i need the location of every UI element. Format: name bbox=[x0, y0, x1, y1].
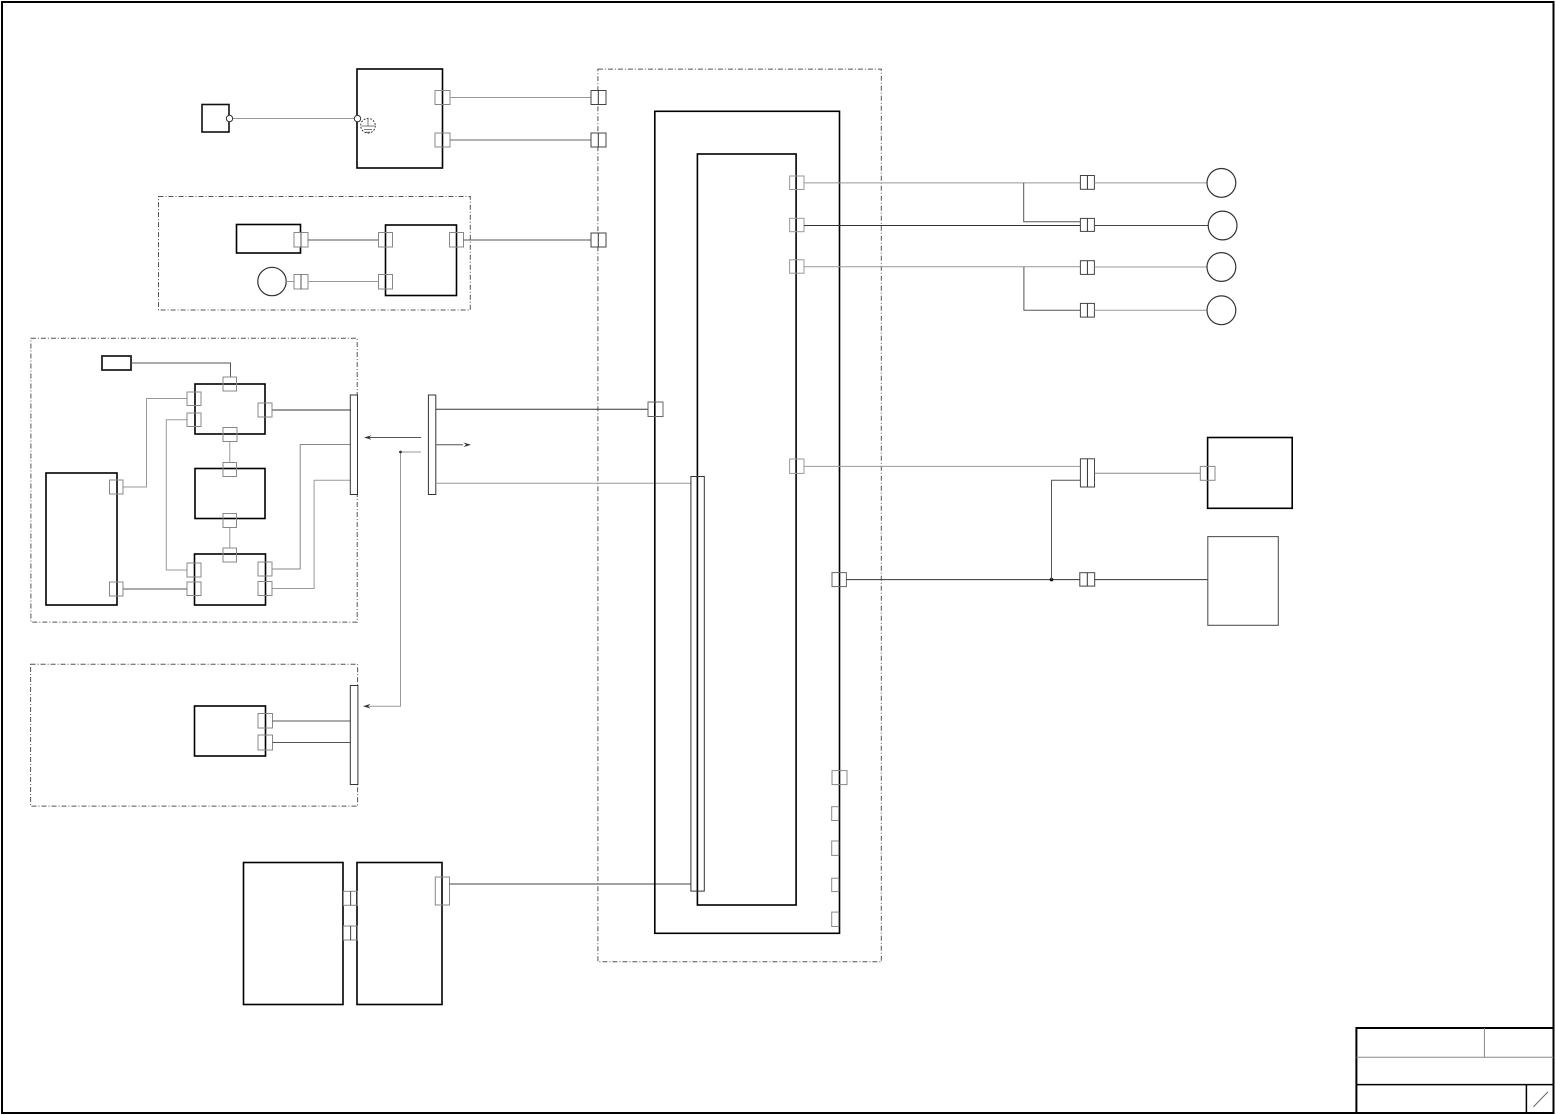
label plate bbox=[102, 356, 131, 370]
wire C right lower to bus bar 1 bbox=[272, 480, 350, 588]
wire RA to RB bbox=[308, 239, 379, 241]
socket circle at J1 bbox=[226, 115, 232, 121]
wire label to module A bbox=[131, 363, 231, 377]
bottom box G bbox=[357, 863, 442, 1005]
signal arrow right bbox=[436, 443, 471, 448]
frame right connector (output) bbox=[832, 573, 846, 587]
junction dot on output wire bbox=[1050, 578, 1054, 582]
lamp 4 bbox=[1207, 296, 1236, 325]
wire sensor to pair bbox=[286, 281, 294, 283]
wire inner panel to tall connector bbox=[804, 465, 1080, 467]
connector RB right bbox=[450, 233, 464, 248]
connector PSU output 1 bbox=[435, 91, 450, 105]
wire J1 to PSU bbox=[230, 118, 355, 120]
lamp 2 bbox=[1208, 211, 1237, 240]
enclosure (control cabinet, dash-dot) bbox=[31, 338, 357, 622]
frame right pin 1 bbox=[832, 807, 839, 821]
wire branch line1 to lamp connector 2 bbox=[1024, 183, 1081, 222]
frame right pin 4 bbox=[832, 912, 839, 926]
module E bbox=[195, 706, 266, 756]
protective earth symbol bbox=[361, 118, 376, 133]
connector RB left upper bbox=[379, 233, 393, 248]
connector A bottom bbox=[223, 428, 237, 442]
box 2 bbox=[1208, 537, 1279, 626]
connector E right lower bbox=[258, 735, 273, 750]
battery box D bbox=[46, 473, 117, 605]
frame right connector (spare pair) bbox=[832, 771, 847, 785]
connector RB left lower bbox=[379, 275, 393, 290]
connector PSU output 2 bbox=[435, 133, 450, 147]
wire PSU out2 bbox=[450, 139, 591, 141]
wire A right to bus bar 1 bbox=[272, 409, 350, 411]
connector E right upper bbox=[258, 714, 273, 729]
lamp connector 4 bbox=[1080, 303, 1094, 317]
wire junction up to tall connector bbox=[1052, 480, 1081, 579]
lamp 3 bbox=[1207, 253, 1236, 282]
wire A bottom to B top bbox=[229, 442, 231, 463]
wire to lamp 2 bbox=[1094, 225, 1208, 227]
tall connector on G right bbox=[435, 877, 449, 905]
connector D right upper bbox=[110, 480, 124, 494]
module RA bbox=[237, 225, 301, 254]
inner panel connector 2 bbox=[790, 218, 804, 231]
display strip bbox=[691, 477, 704, 892]
wire frame output to lower connector bbox=[846, 579, 1079, 581]
connector on frame left bbox=[648, 402, 663, 417]
inner panel connector 1 bbox=[790, 176, 804, 190]
connector C left lower bbox=[187, 582, 201, 596]
wire bus bar 2 to display strip bbox=[436, 482, 691, 484]
enclosure (lower unit, dash-dot) bbox=[31, 664, 358, 806]
tall connector TC1 bbox=[1080, 459, 1094, 487]
connector C right lower bbox=[258, 582, 272, 596]
bus bar 3 bbox=[350, 686, 358, 785]
enclosure (main cabinet, dash-dot) bbox=[598, 69, 881, 962]
connector C right upper bbox=[258, 562, 272, 576]
wire lamp line 1 bbox=[804, 182, 1080, 184]
power supply unit bbox=[357, 69, 443, 168]
connector A left lower bbox=[187, 413, 201, 427]
frame right pin 3 bbox=[832, 878, 839, 891]
drop wire to lower unit bbox=[365, 452, 421, 706]
wire bus bar 2 to frame connector bbox=[436, 408, 648, 410]
module B bbox=[195, 469, 265, 519]
sensor circle bbox=[258, 267, 286, 295]
wire TC1 to display box bbox=[1095, 472, 1201, 474]
wire E upper to bus bar 3 bbox=[273, 720, 351, 722]
connector pair X2 on boundary bbox=[591, 133, 606, 147]
wire LC to box 2 bbox=[1095, 579, 1208, 581]
module C bbox=[195, 554, 266, 605]
connector D right lower bbox=[110, 582, 124, 596]
signal arrow left bbox=[364, 435, 421, 440]
inner panel connector 4 bbox=[790, 459, 804, 473]
connector C top bbox=[223, 548, 237, 562]
connector pair X3 on boundary bbox=[591, 233, 606, 247]
wire branch line3 to lamp connector 4 bbox=[1024, 267, 1081, 310]
wire to lamp 3 bbox=[1094, 266, 1207, 268]
connector pair F-G lower bbox=[344, 926, 358, 940]
connector A right bbox=[258, 403, 272, 417]
lamp connector 1 bbox=[1080, 176, 1094, 190]
lower connector LC bbox=[1080, 573, 1095, 586]
wire sensor pair to RB bbox=[308, 281, 379, 283]
junction box J1 bbox=[202, 105, 229, 133]
frame right pin 2 bbox=[832, 841, 839, 855]
wire to lamp 1 bbox=[1094, 182, 1207, 184]
title block bbox=[1356, 1027, 1553, 1113]
main frame box bbox=[655, 111, 840, 933]
wire lamp line 2 bbox=[804, 225, 1080, 227]
lamp connector 2 bbox=[1080, 218, 1094, 231]
connector pair sensor bbox=[294, 275, 308, 290]
wire B bottom to C top bbox=[229, 528, 231, 549]
bus bar 2 bbox=[428, 395, 435, 495]
relay module A bbox=[195, 384, 265, 434]
display box 1 bbox=[1208, 438, 1293, 509]
wire E lower to bus bar 3 bbox=[273, 742, 351, 744]
inner panel bbox=[697, 154, 796, 905]
connector pair X1 on boundary bbox=[591, 91, 606, 105]
wire RB to boundary bbox=[464, 239, 592, 241]
junction dot bbox=[399, 451, 402, 454]
bus bar 1 bbox=[350, 395, 357, 495]
wire A left lower to C left upper bbox=[166, 420, 187, 570]
wire C right upper to bus bar 1 bbox=[272, 445, 350, 570]
connector A top bbox=[223, 377, 237, 391]
wire lamp line 3 bbox=[804, 266, 1080, 268]
connector C left upper bbox=[187, 563, 201, 577]
bottom box F bbox=[244, 863, 344, 1005]
lamp connector 3 bbox=[1080, 261, 1094, 275]
wire D lower to C left lower bbox=[123, 588, 187, 590]
enclosure (sensor unit, dash-dot) bbox=[159, 197, 471, 311]
control box RB bbox=[386, 225, 457, 296]
wire to lamp 4 bbox=[1094, 309, 1207, 311]
connector B top bbox=[223, 463, 237, 477]
socket circle at PSU bbox=[354, 115, 360, 121]
inner panel connector 3 bbox=[790, 260, 804, 273]
connector pair F-G upper bbox=[344, 891, 358, 905]
connector A left upper bbox=[187, 392, 201, 406]
connector B bottom bbox=[223, 514, 237, 528]
connector on display box 1 bbox=[1200, 466, 1215, 480]
wire PSU out1 bbox=[450, 97, 591, 99]
wire G to display strip bbox=[450, 883, 691, 885]
lamp 1 bbox=[1207, 169, 1236, 198]
connector pair RA out bbox=[294, 233, 308, 248]
wire D upper to A left upper bbox=[123, 399, 187, 488]
arrowhead into lower unit bbox=[363, 704, 371, 709]
